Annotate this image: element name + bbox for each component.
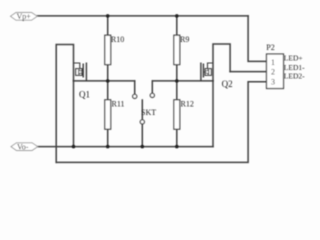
junction Q2 bus R9/R12 xyxy=(175,79,179,83)
junction Vo- rail R11 xyxy=(106,145,110,149)
port Vp+ xyxy=(11,12,38,21)
svg-text:1: 1 xyxy=(271,58,275,67)
socket SKT pin 3 xyxy=(140,120,144,124)
wire node Q1 drain bus xyxy=(74,80,135,82)
junction Vo- rail SKT xyxy=(141,145,145,149)
wire Q1 source down to Vo- rail xyxy=(73,81,75,147)
wire SKT pin2 drop xyxy=(151,81,153,93)
svg-text:P2: P2 xyxy=(266,43,274,52)
port Vo- xyxy=(11,143,38,152)
wire Q2 gate loop xyxy=(213,44,230,81)
Q1 gate lead xyxy=(74,63,80,69)
svg-text:Vp+: Vp+ xyxy=(17,12,32,21)
svg-text:R11: R11 xyxy=(112,99,125,108)
Q2 arrow xyxy=(204,70,208,74)
Q1 gate box xyxy=(76,69,82,76)
wire R12 top lead xyxy=(176,81,178,100)
Q2 gate lead xyxy=(208,63,214,69)
resistor R11 xyxy=(105,100,111,129)
resistor R12 xyxy=(174,100,180,129)
wire R11 bottom lead xyxy=(107,129,109,146)
wire lower rail to P2 pin3 xyxy=(56,82,266,163)
connector P2 body xyxy=(267,54,284,89)
transistor Q1 xyxy=(74,63,87,81)
socket SKT pin 1 xyxy=(133,94,137,98)
wire R12 bottom lead xyxy=(176,129,178,146)
Q1 channel bar xyxy=(85,63,87,81)
junction Vo- rail R12 xyxy=(175,145,179,149)
wire R11 top lead xyxy=(107,81,109,100)
wire Vp+ top rail xyxy=(37,15,248,17)
port Vp+ outline xyxy=(11,13,38,21)
svg-text:SKT: SKT xyxy=(141,108,156,117)
wire SKT pin3 to Vo- rail xyxy=(141,124,143,147)
svg-text:Vo-: Vo- xyxy=(17,143,29,152)
svg-text:Q1: Q1 xyxy=(79,89,90,99)
wire R9 top lead xyxy=(176,16,178,35)
svg-text:LED2-: LED2- xyxy=(284,71,305,80)
Q2 gate box xyxy=(205,69,211,76)
svg-text:LED+: LED+ xyxy=(284,54,303,63)
socket SKT pin 2 xyxy=(150,93,154,97)
transistor Q2 xyxy=(201,63,213,81)
svg-text:3: 3 xyxy=(271,78,275,87)
wire R10 bottom lead xyxy=(107,65,109,81)
Q1 arrow xyxy=(79,70,83,74)
svg-text:R12: R12 xyxy=(181,99,194,108)
wire top rail to P2 pin1 xyxy=(248,16,266,62)
resistor R10 xyxy=(105,35,111,64)
resistor R9 xyxy=(174,35,180,64)
svg-text:Q2: Q2 xyxy=(222,79,233,89)
wire node Q2 drain bus xyxy=(153,80,213,82)
wire Q2 source down to Vo- rail xyxy=(212,81,214,147)
junction Vo- rail Q1 source xyxy=(72,145,76,149)
wire Q2 gate loop to P2 pin2 xyxy=(230,71,266,73)
port Vo- outline xyxy=(11,143,38,151)
junction top rail R10 xyxy=(106,14,110,18)
wire R9 bottom lead xyxy=(176,65,178,81)
junction top rail R9 xyxy=(175,14,179,18)
Q2 channel bar xyxy=(200,63,202,81)
svg-text:2: 2 xyxy=(271,67,275,76)
junction Q1 bus R10/R11 xyxy=(106,79,110,83)
wire Q1 gate loop to lower rail xyxy=(56,45,73,163)
Q2 gate bar xyxy=(202,64,204,78)
wire SKT pin3 stub xyxy=(141,100,143,120)
wire R10 top lead xyxy=(107,16,109,35)
wire Vo- bottom rail xyxy=(37,146,213,148)
svg-text:R9: R9 xyxy=(180,35,189,44)
Q1 gate bar xyxy=(82,64,84,78)
wire SKT pin1 drop xyxy=(134,81,136,94)
svg-text:R10: R10 xyxy=(111,35,124,44)
